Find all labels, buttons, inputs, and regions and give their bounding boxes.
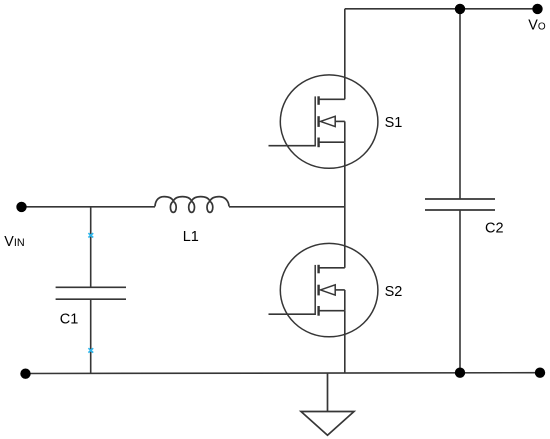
svg-text:S2: S2 (385, 284, 403, 300)
transistor S1 (MOSFET) (269, 75, 378, 168)
wire C1 branch upper (90, 207, 92, 288)
net tick marker C1 lower (cyan) (88, 348, 93, 352)
svg-text:C1: C1 (60, 312, 79, 328)
svg-text:S1: S1 (385, 115, 403, 131)
node VO junction dot (532, 4, 542, 14)
wire switch node vertical (S1 source to S2 drain) (344, 142, 346, 268)
svg-text:L1: L1 (183, 229, 199, 245)
capacitor C1 (56, 287, 126, 299)
wire middle rail VIN to inductor (22, 206, 156, 208)
inductor L1 (155, 197, 229, 213)
wire top rail VO net (345, 8, 538, 10)
node top rail / C2 junction dot (455, 4, 465, 14)
transistor S2 (MOSFET) (269, 243, 378, 336)
wire C2 branch upper (459, 9, 461, 199)
node VIN junction dot (16, 202, 26, 212)
wire inductor to switch node (229, 206, 345, 208)
wire S2 source to bottom rail (344, 311, 346, 373)
node bottom-left junction dot (20, 369, 30, 379)
wire bottom rail (25, 372, 540, 375)
node bottom-right junction dot (535, 368, 545, 378)
svg-text:VIN: VIN (4, 234, 24, 250)
wire C1 branch lower (90, 299, 92, 373)
wire S1 drain to top rail (344, 9, 346, 100)
node bottom rail / C2 junction dot (455, 368, 465, 378)
capacitor C2 (425, 199, 495, 210)
net tick marker C1 upper (cyan) (88, 233, 93, 237)
ground (301, 373, 354, 435)
wire C2 branch lower (459, 210, 461, 373)
svg-text:C2: C2 (485, 221, 504, 237)
